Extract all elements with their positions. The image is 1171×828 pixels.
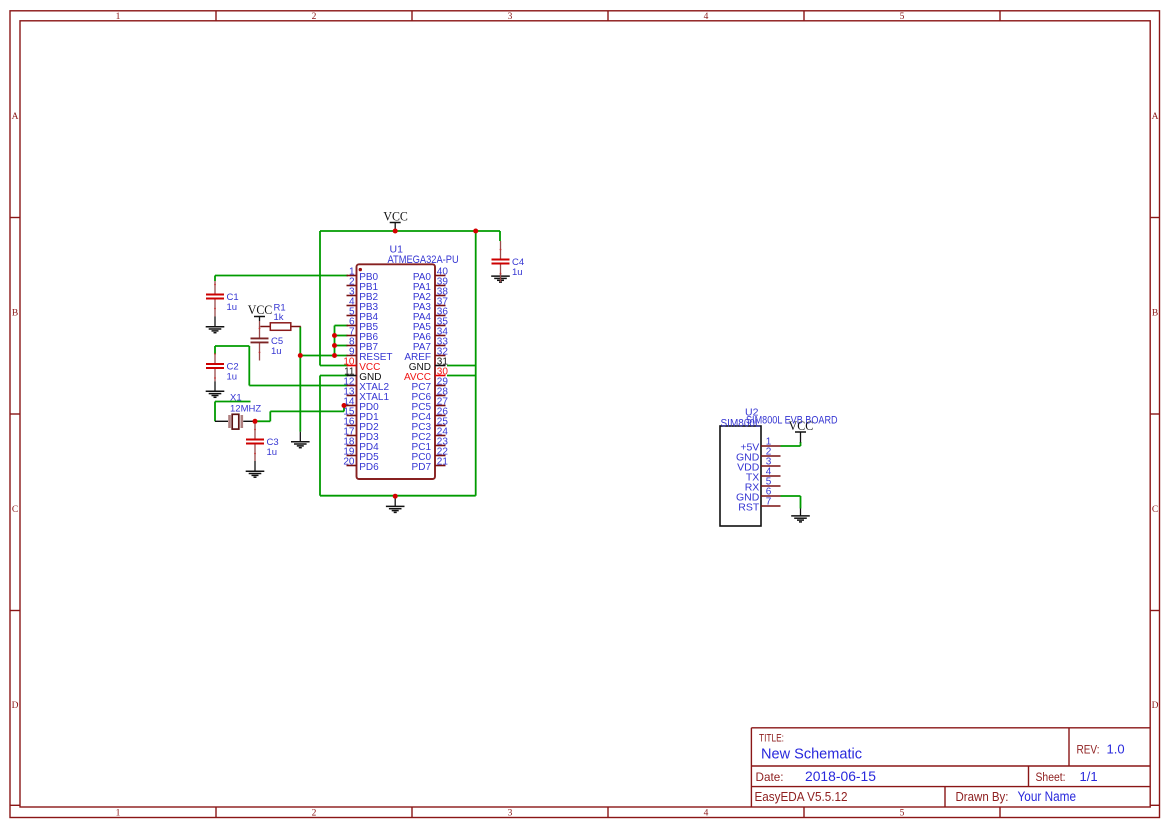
svg-text:7: 7 — [766, 497, 772, 508]
svg-text:C: C — [1152, 505, 1158, 515]
svg-text:VCC: VCC — [248, 303, 273, 317]
svg-text:B: B — [1152, 309, 1158, 319]
svg-text:Your Name: Your Name — [1018, 789, 1077, 804]
svg-text:1: 1 — [116, 12, 121, 22]
svg-text:3: 3 — [508, 808, 513, 818]
svg-text:EasyEDA V5.5.12: EasyEDA V5.5.12 — [755, 790, 848, 804]
svg-text:Date:: Date: — [756, 770, 784, 784]
svg-text:2018-06-15: 2018-06-15 — [805, 769, 876, 784]
svg-text:VCC: VCC — [383, 210, 408, 224]
svg-text:VCC: VCC — [789, 419, 814, 433]
svg-text:1: 1 — [116, 808, 121, 818]
svg-text:20: 20 — [343, 456, 355, 467]
svg-text:Drawn By:: Drawn By: — [956, 790, 1009, 804]
svg-text:REV:: REV: — [1077, 745, 1100, 757]
svg-text:5: 5 — [900, 808, 905, 818]
svg-text:1.0: 1.0 — [1107, 742, 1125, 757]
svg-text:21: 21 — [437, 456, 449, 467]
svg-text:1u: 1u — [267, 447, 278, 458]
svg-text:C: C — [12, 505, 18, 515]
svg-text:PD6: PD6 — [359, 462, 379, 473]
svg-text:1/1: 1/1 — [1080, 769, 1098, 784]
svg-text:Sheet:: Sheet: — [1036, 772, 1066, 784]
svg-text:1u: 1u — [227, 372, 238, 383]
svg-text:New Schematic: New Schematic — [761, 746, 862, 763]
svg-text:TITLE:: TITLE: — [759, 733, 784, 745]
svg-text:PD7: PD7 — [412, 462, 432, 473]
svg-text:B: B — [12, 309, 18, 319]
svg-text:1u: 1u — [512, 267, 523, 278]
svg-text:X1: X1 — [230, 392, 242, 403]
svg-text:12MHZ: 12MHZ — [230, 404, 261, 415]
svg-text:1u: 1u — [227, 302, 238, 313]
svg-text:A: A — [1152, 112, 1159, 122]
svg-text:2: 2 — [312, 808, 317, 818]
svg-text:A: A — [12, 112, 19, 122]
svg-text:RST: RST — [738, 501, 760, 513]
svg-text:4: 4 — [704, 808, 709, 818]
svg-text:1k: 1k — [274, 312, 284, 323]
svg-text:3: 3 — [508, 12, 513, 22]
svg-text:1u: 1u — [271, 346, 282, 357]
svg-text:D: D — [1152, 701, 1159, 711]
svg-text:D: D — [12, 701, 19, 711]
svg-text:SIM800L: SIM800L — [721, 418, 761, 430]
svg-text:ATMEGA32A-PU: ATMEGA32A-PU — [388, 254, 459, 266]
svg-text:2: 2 — [312, 12, 317, 22]
svg-text:4: 4 — [704, 12, 709, 22]
svg-text:5: 5 — [900, 12, 905, 22]
